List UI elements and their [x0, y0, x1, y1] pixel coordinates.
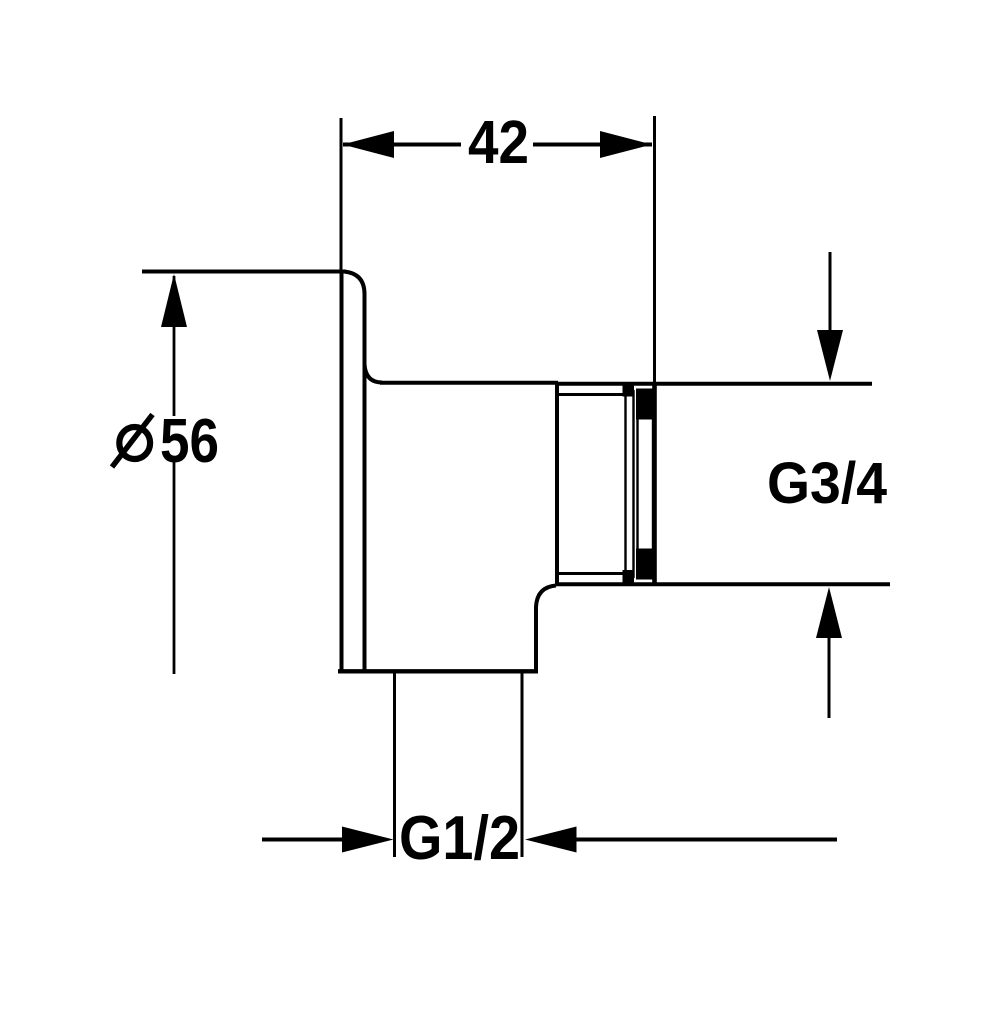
dim 42 left extension line	[340, 118, 343, 270]
svg-text:G1/2: G1/2	[399, 804, 520, 873]
dim 42 left arrowhead	[343, 131, 395, 158]
dim Ø56 label halo	[105, 416, 229, 462]
G3/4 lower arrowhead	[816, 587, 842, 638]
G1/2 dim line left segment	[262, 838, 345, 842]
seal ring bottom black section	[636, 549, 655, 580]
washer bottom black block	[623, 570, 635, 583]
dim 42 right extension line	[653, 116, 656, 382]
body bottom fillet and right face	[536, 586, 556, 672]
spigot shoulder	[555, 383, 559, 584]
dim Ø56 arrowhead	[161, 274, 187, 327]
dim Ø56 label diameter symbol circle	[119, 427, 150, 459]
dim Ø56 line	[173, 276, 176, 674]
thread minor line bottom	[558, 572, 624, 575]
svg-text:56: 56	[160, 407, 219, 476]
dim Ø56 label diameter symbol slash	[112, 415, 153, 468]
svg-text:42: 42	[468, 108, 529, 176]
body bottom line	[338, 669, 538, 673]
dim 42 right arrowhead	[600, 131, 652, 158]
dim 42 line right segment	[533, 143, 652, 147]
body top fillet	[365, 364, 383, 383]
G3/4 upper arrowhead	[817, 330, 843, 381]
thread minor line top	[558, 393, 624, 396]
pipe left line	[393, 673, 396, 857]
G1/2 dim line right segment	[574, 838, 837, 842]
G1/2 right arrowhead	[525, 827, 577, 853]
G1/2 left arrowhead	[342, 827, 394, 853]
pipe right line	[521, 673, 524, 857]
svg-text:G3/4: G3/4	[767, 451, 887, 516]
spigot bottom line and G3/4 lower extension line	[556, 582, 890, 586]
flange rim profile (top rounded corner + front face)	[344, 272, 365, 671]
washer top black block	[623, 384, 635, 397]
G3/4 upper arrow shaft	[829, 252, 832, 338]
seal ring top black section	[636, 389, 655, 420]
dim Ø56 top extension line	[142, 270, 346, 274]
dim 42 line left segment	[343, 143, 461, 147]
washer strip left edge	[624, 395, 626, 573]
seal ring outline	[638, 390, 654, 578]
flange left face / wall line	[340, 270, 344, 673]
body top line	[380, 381, 558, 385]
G3/4 lower arrow shaft	[828, 632, 831, 718]
spigot top line and G3/4 upper extension line	[556, 382, 872, 386]
spigot end face	[652, 382, 657, 585]
washer strip right edge	[632, 390, 634, 578]
